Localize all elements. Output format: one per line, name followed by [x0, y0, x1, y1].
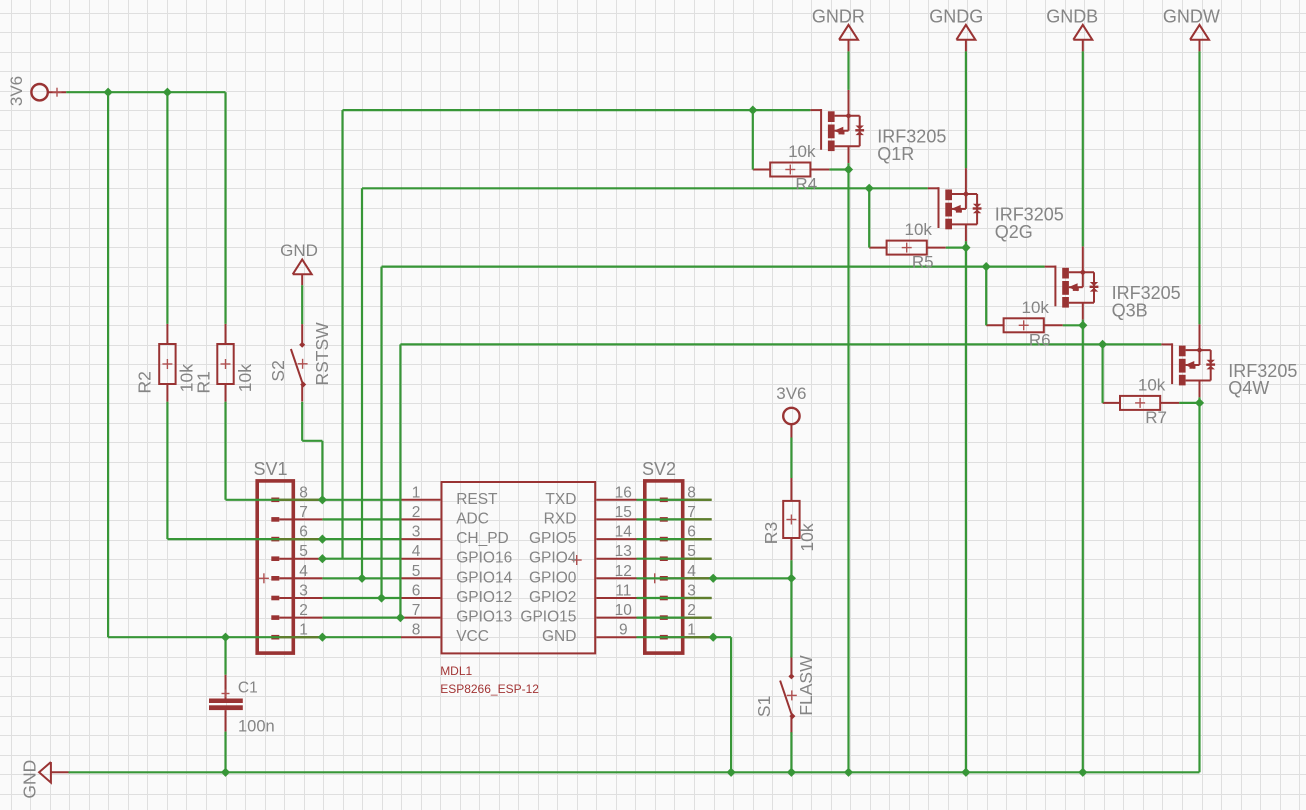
svg-text:4: 4: [412, 543, 421, 560]
svg-text:SV1: SV1: [254, 459, 288, 479]
svg-text:GNDR: GNDR: [812, 6, 865, 26]
svg-text:GPIO15: GPIO15: [520, 609, 576, 626]
svg-text:Q2G: Q2G: [995, 222, 1033, 242]
svg-text:GND: GND: [280, 241, 318, 260]
svg-text:14: 14: [615, 524, 633, 541]
svg-text:GNDB: GNDB: [1046, 6, 1098, 26]
svg-text:1: 1: [299, 622, 308, 639]
svg-text:RSTSW: RSTSW: [312, 322, 332, 386]
svg-text:8: 8: [687, 484, 696, 501]
svg-text:R3: R3: [761, 522, 781, 544]
svg-text:VCC: VCC: [456, 628, 489, 645]
svg-text:GPIO2: GPIO2: [529, 589, 576, 606]
svg-text:GNDW: GNDW: [1163, 6, 1220, 26]
svg-text:GPIO5: GPIO5: [529, 530, 576, 547]
svg-text:4: 4: [687, 563, 696, 580]
svg-text:GND: GND: [542, 628, 576, 645]
svg-text:3V6: 3V6: [7, 76, 26, 106]
svg-text:MDL1: MDL1: [440, 664, 472, 678]
svg-text:RXD: RXD: [544, 510, 577, 527]
svg-text:10k: 10k: [1138, 375, 1166, 394]
svg-text:10k: 10k: [904, 220, 932, 239]
svg-text:12: 12: [615, 563, 632, 580]
svg-text:GNDG: GNDG: [929, 6, 983, 26]
svg-text:10k: 10k: [788, 142, 816, 161]
svg-text:Q1R: Q1R: [877, 144, 914, 164]
svg-text:100n: 100n: [238, 717, 275, 735]
svg-text:5: 5: [687, 543, 696, 560]
svg-text:10k: 10k: [1021, 298, 1049, 317]
svg-text:R2: R2: [135, 371, 155, 393]
svg-text:CH_PD: CH_PD: [456, 530, 509, 547]
svg-text:6: 6: [412, 583, 421, 600]
svg-text:Q4W: Q4W: [1228, 378, 1269, 398]
svg-text:ESP8266_ESP-12: ESP8266_ESP-12: [440, 682, 539, 696]
svg-text:6: 6: [299, 524, 308, 541]
svg-text:7: 7: [687, 504, 696, 521]
svg-text:11: 11: [615, 583, 631, 600]
svg-text:REST: REST: [456, 491, 498, 508]
svg-text:3: 3: [412, 524, 421, 541]
svg-text:6: 6: [687, 524, 696, 541]
svg-text:GPIO16: GPIO16: [456, 550, 512, 567]
svg-text:R6: R6: [1029, 330, 1051, 349]
svg-text:10k: 10k: [235, 364, 255, 392]
svg-text:3: 3: [299, 583, 308, 600]
svg-text:SV2: SV2: [642, 459, 676, 479]
svg-text:16: 16: [615, 484, 632, 501]
svg-text:S2: S2: [268, 360, 288, 381]
svg-text:R5: R5: [912, 253, 934, 272]
svg-text:7: 7: [412, 602, 421, 619]
svg-text:S1: S1: [754, 696, 774, 717]
svg-text:TXD: TXD: [545, 491, 576, 508]
svg-text:5: 5: [299, 543, 308, 560]
svg-text:2: 2: [412, 504, 421, 521]
svg-text:C1: C1: [238, 680, 258, 697]
svg-text:15: 15: [615, 504, 632, 521]
svg-text:8: 8: [299, 484, 308, 501]
svg-text:GND: GND: [20, 760, 40, 799]
svg-text:7: 7: [299, 504, 308, 521]
svg-text:GPIO13: GPIO13: [456, 609, 512, 626]
svg-text:10: 10: [615, 602, 633, 619]
svg-text:GPIO12: GPIO12: [456, 589, 512, 606]
svg-text:R1: R1: [194, 371, 214, 393]
svg-text:2: 2: [687, 602, 696, 619]
svg-text:13: 13: [615, 543, 632, 560]
svg-text:8: 8: [412, 622, 421, 639]
svg-text:GPIO14: GPIO14: [456, 569, 512, 586]
svg-text:FLASW: FLASW: [796, 655, 816, 716]
svg-text:10k: 10k: [797, 523, 817, 551]
svg-text:GPIO0: GPIO0: [529, 569, 577, 586]
svg-text:5: 5: [412, 563, 421, 580]
svg-text:GPIO4: GPIO4: [529, 550, 577, 567]
svg-text:1: 1: [687, 622, 696, 639]
svg-text:9: 9: [619, 622, 628, 639]
svg-text:3: 3: [687, 583, 696, 600]
svg-text:1: 1: [412, 484, 421, 501]
svg-text:3V6: 3V6: [776, 384, 806, 403]
svg-text:2: 2: [299, 602, 308, 619]
svg-text:Q3B: Q3B: [1112, 300, 1148, 320]
svg-text:R4: R4: [795, 175, 817, 194]
svg-text:4: 4: [299, 563, 308, 580]
svg-text:ADC: ADC: [456, 510, 489, 527]
svg-text:R7: R7: [1145, 408, 1167, 427]
